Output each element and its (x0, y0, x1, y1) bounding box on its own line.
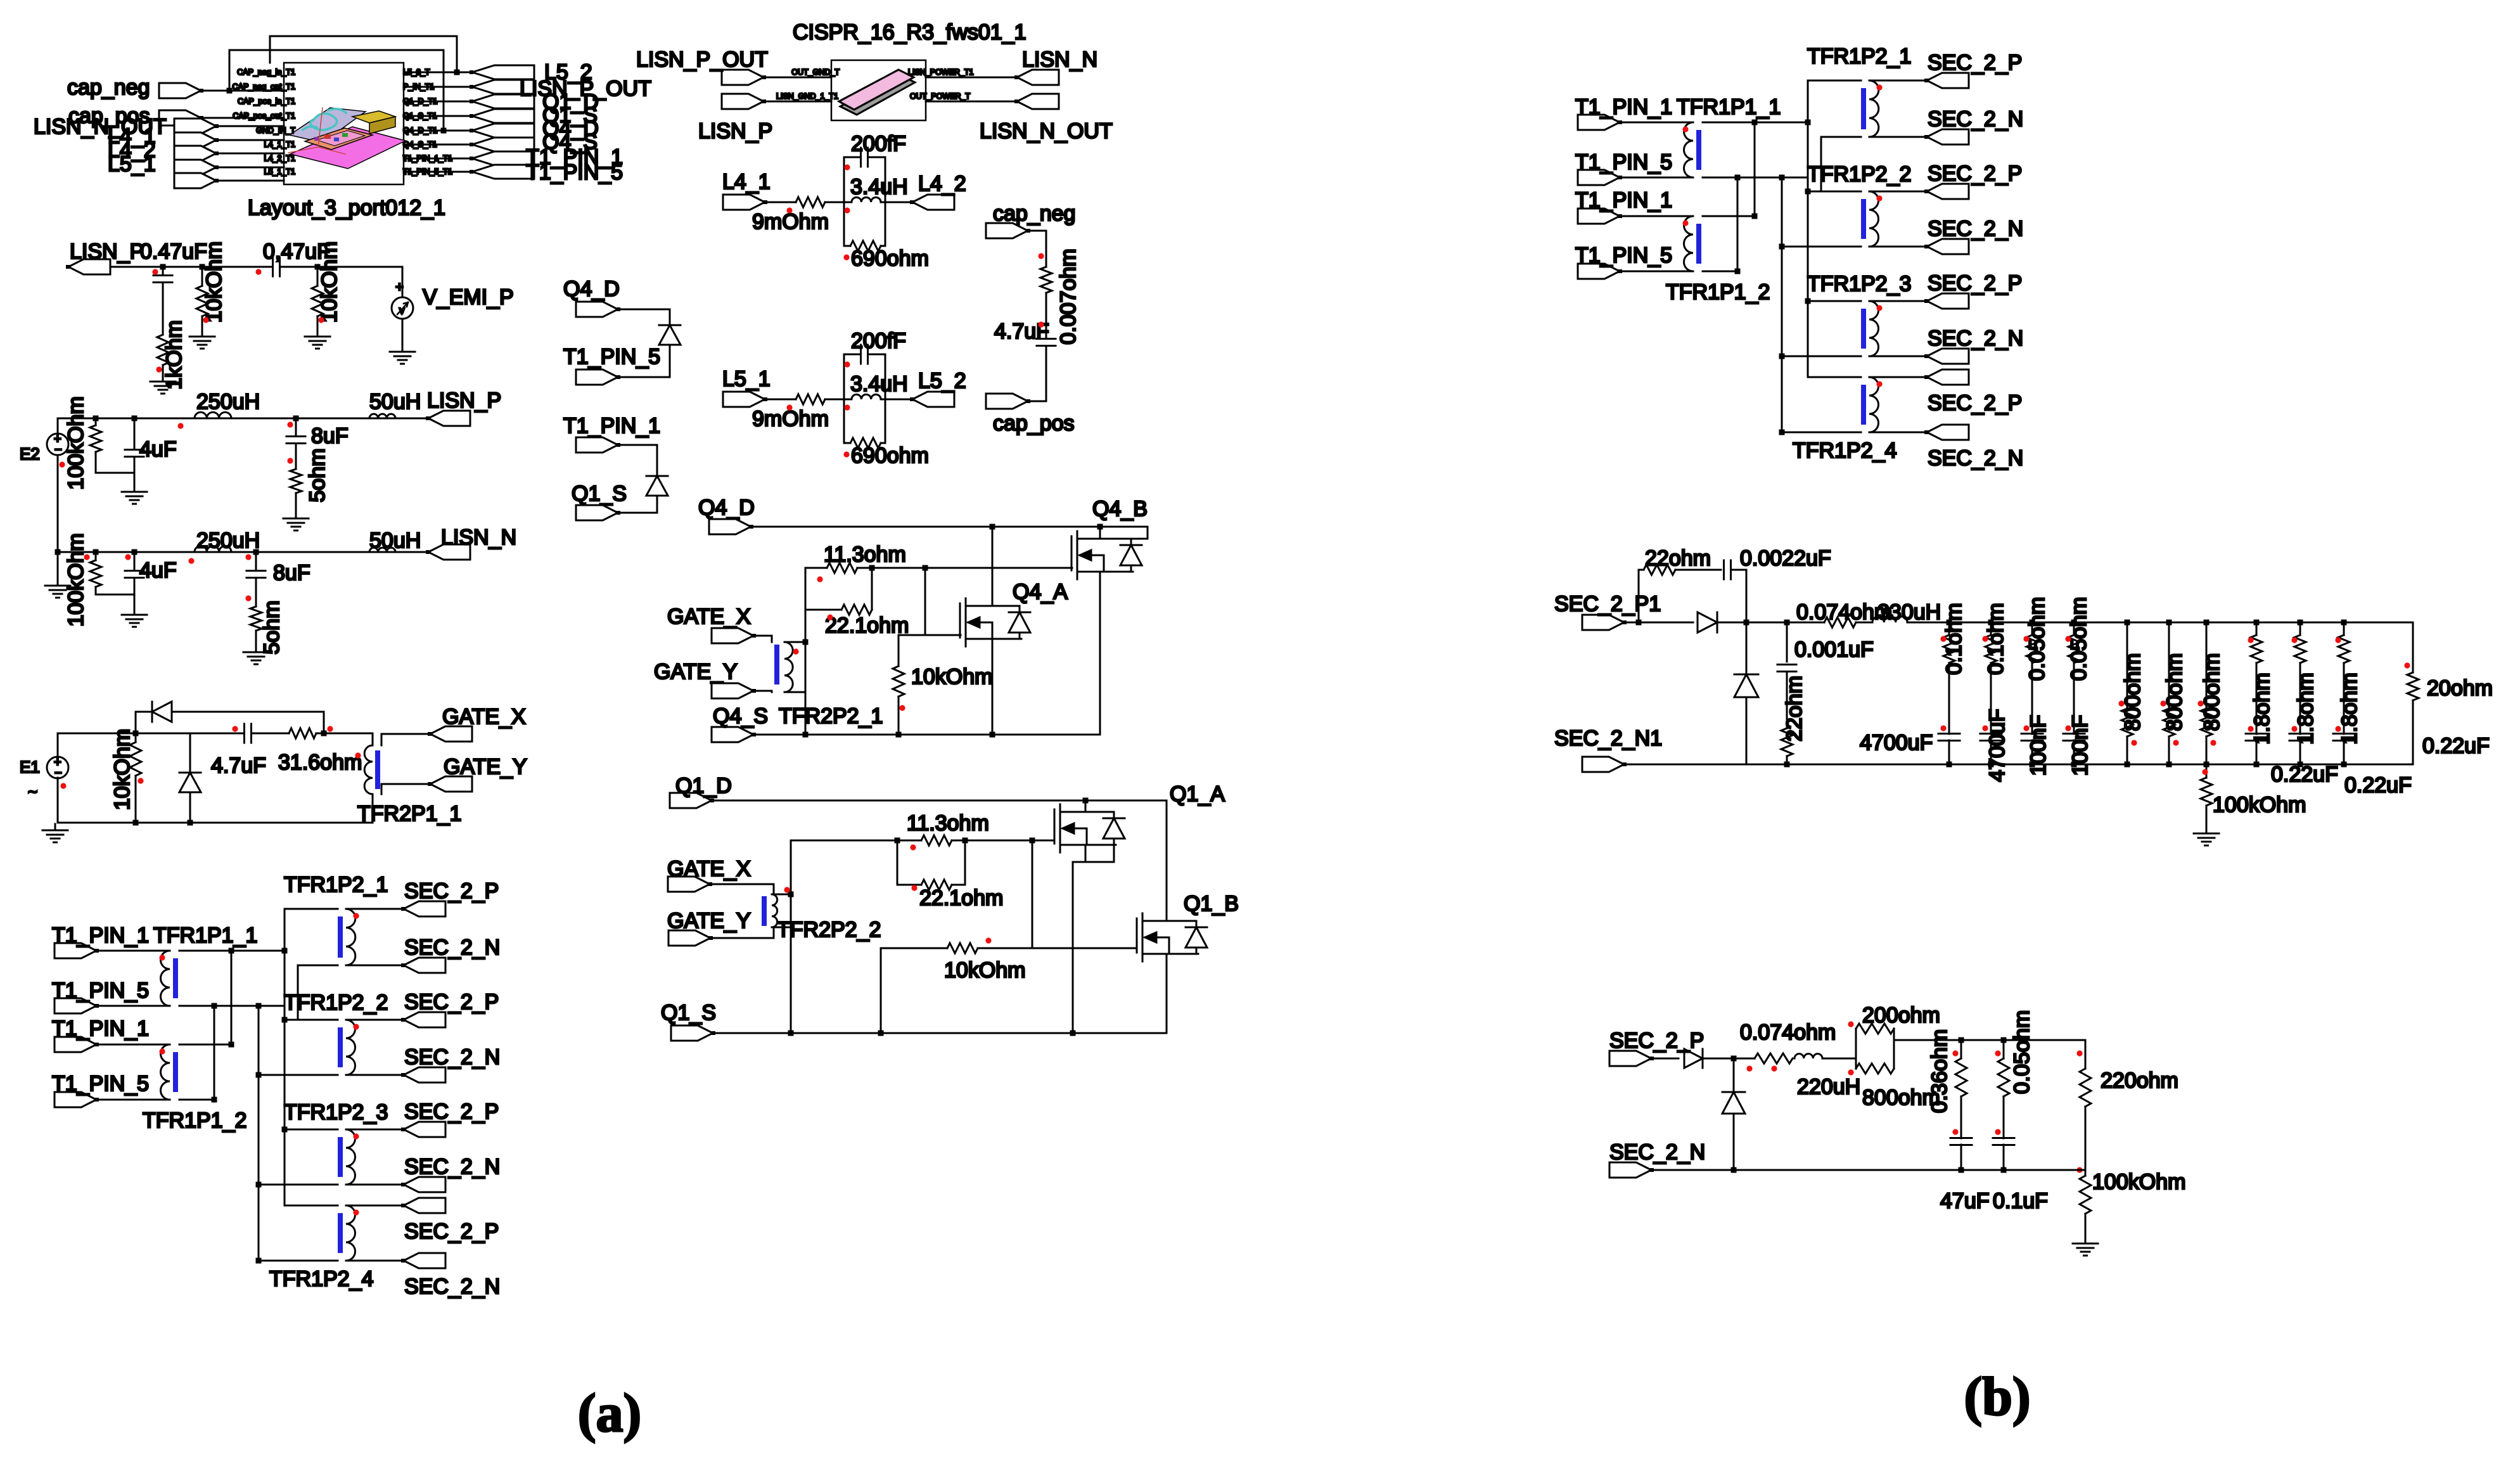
junction (1779, 299, 1811, 359)
wire (825, 399, 844, 401)
wire (1990, 740, 1992, 764)
svg-text:TFR1P1_1: TFR1P1_1 (153, 923, 257, 948)
svg-text:TFR1P2_4: TFR1P2_4 (1793, 439, 1896, 463)
svg-text:GATE_Y: GATE_Y (444, 755, 527, 779)
svg-text:TFR1P2_3: TFR1P2_3 (284, 1100, 388, 1124)
svg-text:220uH: 220uH (1797, 1075, 1860, 1099)
wire (1028, 346, 1046, 401)
svg-text:LISN_N_OUT: LISN_N_OUT (980, 119, 1113, 143)
wire (216, 125, 284, 127)
node dots (2023, 636, 2029, 731)
ground (122, 608, 147, 627)
svg-text:0.001uF: 0.001uF (1794, 638, 1874, 662)
svg-text:SEC_2_P: SEC_2_P (404, 879, 499, 903)
pin L5_2_T (403, 68, 430, 77)
junction (2341, 620, 2347, 768)
wire (843, 354, 845, 443)
wire bus (1737, 177, 1739, 271)
diode (1698, 612, 1717, 633)
junction (1731, 1056, 1737, 1062)
label V_EMI_P (423, 285, 514, 309)
resistor 0.36ohm (1928, 1029, 1967, 1113)
svg-text:OUT_POWER_T: OUT_POWER_T (910, 92, 971, 101)
ground (243, 646, 269, 664)
wire (844, 354, 885, 356)
svg-text:L5_1: L5_1 (722, 367, 771, 391)
label SEC_2_N (1928, 107, 2023, 131)
wire (844, 442, 885, 444)
junction (990, 524, 1103, 530)
svg-text:Q1_A: Q1_A (1170, 782, 1225, 806)
node dots (786, 164, 850, 260)
transformer TFR1P2_4 winding (346, 1205, 355, 1261)
svg-text:T1_PIN_5: T1_PIN_5 (526, 160, 623, 184)
wire (899, 634, 961, 636)
port L5_2 (910, 369, 966, 407)
svg-text:LISN_POWER_T1: LISN_POWER_T1 (908, 68, 974, 77)
wire (179, 1099, 214, 1101)
svg-text:T1_PIN_1: T1_PIN_1 (52, 923, 149, 948)
resistor 100kOhm (2080, 1170, 2185, 1214)
svg-text:LISN_N: LISN_N (1022, 48, 1097, 72)
svg-text:T1_PIN_5: T1_PIN_5 (52, 1072, 149, 1096)
wire (1782, 246, 1861, 248)
svg-text:100kOhm: 100kOhm (64, 396, 88, 489)
wire (136, 712, 324, 733)
ground (390, 345, 415, 364)
diode (659, 325, 681, 345)
svg-text:800ohm: 800ohm (2121, 653, 2145, 731)
transformer TFR2P1_1 winding (364, 745, 373, 794)
resistor 0.05ohm (1998, 1010, 2034, 1096)
pin GND_IN_T (256, 126, 295, 135)
port Q1_D (670, 774, 732, 808)
wire (162, 283, 164, 335)
wire (2206, 764, 2208, 778)
wire (2299, 622, 2301, 635)
junction (2071, 620, 2077, 768)
port (right side) (470, 109, 534, 123)
label SEC_2_N (1928, 446, 2023, 470)
label 9mOhm (752, 407, 829, 431)
junction (2125, 620, 2130, 768)
ground (189, 330, 215, 349)
svg-text:9mOhm: 9mOhm (752, 210, 829, 234)
wire (216, 180, 284, 182)
wire (1869, 376, 1927, 378)
port T1_PIN_5 (52, 979, 149, 1013)
svg-text:cap_neg: cap_neg (993, 202, 1075, 226)
junction (2030, 620, 2035, 768)
label E2 (20, 444, 40, 463)
transformer TFR1P2_4 core (338, 1213, 343, 1253)
transformer TFR2P1_1 core (375, 750, 380, 789)
resistor 0.1ohm (1942, 603, 1966, 674)
wire (346, 1074, 404, 1076)
wire (1620, 271, 1693, 273)
svg-text:TFR1P1_2: TFR1P1_2 (1666, 280, 1770, 304)
resistor 10kOhm (893, 665, 993, 697)
wire (2206, 806, 2208, 827)
wire (2003, 1040, 2005, 1058)
label E1 (20, 757, 40, 776)
wire (926, 101, 1017, 103)
label L4_2 (108, 138, 156, 162)
3D PCB image: copper pour (305, 128, 373, 150)
svg-text:SEC_2_N1: SEC_2_N1 (1554, 726, 1662, 750)
wire (2127, 622, 2128, 709)
svg-text:GATE_X: GATE_X (667, 605, 751, 629)
wire (992, 527, 994, 606)
wire bus (1820, 137, 1822, 191)
wire (784, 642, 805, 692)
svg-text:L4_1_T1: L4_1_T1 (264, 140, 295, 149)
ground (2194, 827, 2219, 845)
capacitor 0.22uF (2289, 734, 2412, 798)
wire (96, 552, 134, 595)
wire (1990, 622, 1992, 635)
junction (93, 416, 299, 421)
svg-text:330uH: 330uH (1877, 600, 1941, 624)
label L4_1 (108, 124, 156, 148)
transformer TFR1P2_3 winding (346, 1129, 355, 1185)
svg-text:800ohm: 800ohm (2200, 653, 2224, 731)
wire (201, 90, 284, 92)
wire bus (1781, 177, 1783, 432)
node dots (786, 361, 850, 457)
wire (992, 639, 994, 735)
label 690ohm (851, 247, 929, 271)
svg-text:cap_neg: cap_neg (67, 75, 150, 100)
wire (791, 840, 1054, 842)
wire (1099, 527, 1101, 539)
wire (135, 776, 137, 823)
wire (404, 171, 472, 173)
svg-text:CISPR_16_R3_fws01_1: CISPR_16_R3_fws01_1 (793, 20, 1027, 44)
svg-text:10kOhm: 10kOhm (911, 665, 993, 689)
label Q4_D (542, 117, 599, 141)
svg-text:5ohm: 5ohm (260, 600, 284, 654)
port L4_2 (174, 146, 219, 161)
wire (285, 1205, 338, 1207)
pin T1_PIN_5_T1 (403, 167, 452, 176)
junction (803, 640, 995, 738)
label T1_PIN_5 (526, 160, 623, 184)
wire (404, 115, 472, 117)
label LISN_P (70, 240, 144, 264)
resistor 9mOhm (796, 197, 825, 207)
wire (259, 1260, 338, 1262)
resistor 800ohm (2121, 653, 2145, 736)
wire (1703, 215, 1755, 217)
wire (1808, 376, 1861, 378)
diode (1722, 1092, 1745, 1114)
inductor 330uH (1872, 600, 1941, 624)
label TFR1P2_1 (284, 873, 388, 897)
resistor 0.074ohm (1740, 1020, 1836, 1064)
capacitor 0.22uF (2246, 734, 2338, 787)
junction (1735, 120, 1811, 274)
wire (295, 418, 297, 469)
3D PCB image: colour bits (314, 133, 348, 141)
junction (2298, 620, 2303, 768)
wire (1675, 569, 1721, 571)
wire (1731, 570, 1746, 622)
port SEC_2_P (401, 1122, 445, 1137)
wire (1856, 1029, 1894, 1069)
port SEC_2_N (401, 958, 445, 973)
wire rail bottom (58, 822, 373, 824)
svg-text:GATE_Y: GATE_Y (654, 660, 738, 684)
wire (298, 965, 338, 967)
wire (1990, 663, 1992, 734)
junction (227, 70, 460, 134)
node dot (1876, 381, 1882, 387)
wire (2073, 663, 2075, 734)
wire Q1_D rail (712, 800, 1167, 802)
svg-text:Q4_S: Q4_S (713, 704, 768, 728)
svg-text:31.6ohm: 31.6ohm (278, 750, 362, 774)
wire (805, 567, 1072, 569)
port stub (174, 173, 219, 188)
node dots (1982, 636, 1988, 731)
port SEC_2_P (401, 1198, 445, 1213)
port (right side) (470, 165, 534, 179)
junction (1083, 798, 1089, 804)
wire (2412, 622, 2414, 672)
svg-text:Q1_B: Q1_B (1184, 892, 1239, 916)
node dots (2248, 637, 2253, 731)
wire (765, 202, 796, 203)
wire bus (1754, 122, 1756, 216)
pin CAP_pos_out_T1 (233, 112, 295, 120)
port SEC_2_N (1924, 349, 1969, 364)
CISPR 3D image bar (839, 70, 914, 110)
label TFR1P2_3 (284, 1100, 388, 1124)
transformer TFR1P1_1 winding (161, 951, 170, 1006)
CISPR 3D image shadow (840, 75, 915, 115)
svg-text:0.0022uF: 0.0022uF (1740, 546, 1831, 570)
svg-text:L4_2: L4_2 (918, 172, 966, 196)
wire (844, 245, 885, 247)
ground (45, 579, 70, 598)
svg-text:SEC_2_P1: SEC_2_P1 (1554, 592, 1661, 616)
wire (57, 455, 59, 579)
svg-text:50uH: 50uH (369, 529, 421, 553)
capacitor 100nF (2021, 734, 2043, 741)
port SEC_2_P (1924, 293, 1969, 309)
svg-text:+: + (395, 279, 404, 295)
label L5_1 (108, 152, 156, 176)
label 0.47uF (140, 240, 207, 264)
port Q1_S (572, 482, 627, 520)
resistor 22ohm (1781, 676, 1807, 756)
port GATE_X (667, 857, 751, 892)
wire rail (1717, 622, 1824, 624)
ground (122, 485, 147, 504)
wire (201, 267, 203, 286)
wire (231, 418, 369, 420)
wire (57, 733, 59, 823)
wire (2206, 622, 2208, 709)
resistor 220ohm (2080, 1069, 2178, 1107)
node dot (353, 1024, 359, 1029)
svg-text:~: ~ (28, 782, 37, 801)
transformer TFR1P2_2 winding (346, 1020, 355, 1075)
label SEC_2_N (1928, 217, 2023, 241)
wire (710, 927, 774, 938)
node dot (1876, 305, 1882, 311)
svg-text:100kOhm: 100kOhm (2092, 1170, 2185, 1194)
svg-text:47uF: 47uF (1940, 1189, 1990, 1213)
wire rail (1624, 764, 2413, 766)
svg-text:T1_PIN_1: T1_PIN_1 (52, 1017, 149, 1041)
CISPR block body (831, 60, 926, 120)
resistor 0.1ohm (1984, 603, 2008, 674)
wire (372, 733, 374, 823)
port SEC_2_P (1924, 370, 1969, 385)
wire (1703, 122, 1808, 124)
pin P_IN_T1 (403, 82, 434, 91)
wire (381, 734, 430, 745)
svg-text:TFR1P2_3: TFR1P2_3 (1807, 272, 1911, 296)
wire (765, 399, 796, 401)
port LISN_N_OUT (174, 119, 219, 134)
port SEC_2_P (401, 901, 445, 916)
wire (1869, 191, 1927, 193)
wire (2085, 1040, 2087, 1069)
wire (1085, 800, 1087, 812)
svg-text:LISN_P: LISN_P (427, 389, 501, 413)
wire (216, 153, 284, 155)
wire (843, 157, 845, 246)
svg-text:800ohm: 800ohm (2163, 653, 2187, 731)
Layout_3_port012_1 block body (284, 63, 404, 184)
resistor 10kOhm (196, 241, 226, 323)
wire (134, 552, 136, 608)
label SEC_2_P (1928, 51, 2022, 75)
transformer TFR2P2_1 core (774, 645, 779, 685)
node dots (784, 844, 991, 943)
junction (256, 1127, 288, 1188)
wire (2256, 740, 2258, 764)
port Q4_D (563, 277, 620, 317)
svg-text:200fF: 200fF (851, 329, 906, 353)
inductor 3.4uH (852, 394, 881, 399)
svg-text:SEC_2_N: SEC_2_N (1928, 107, 2023, 131)
svg-text:0.22uF: 0.22uF (2422, 734, 2490, 758)
wire (346, 1260, 404, 1262)
resistor 1.8ohm (2250, 635, 2274, 745)
port SEC_2_P (1924, 73, 1969, 88)
transformer TFR1P2_1 winding (1869, 80, 1879, 137)
wire (1746, 697, 1748, 764)
pin OUT_GND_T (791, 68, 840, 77)
port SEC_2_P (1609, 1029, 1704, 1066)
resistor 10kOhm (110, 729, 141, 811)
wire (897, 840, 921, 885)
svg-text:11.3ohm: 11.3ohm (824, 543, 906, 567)
port T1_PIN_1 (1575, 188, 1672, 224)
label 3.4uH (850, 175, 908, 199)
label SEC_2_N (404, 1275, 500, 1299)
wire (2127, 736, 2128, 764)
port GATE_Y (654, 660, 756, 698)
wire bus (297, 965, 299, 1020)
port SEC_2_P (401, 1012, 445, 1027)
svg-text:TFR1P2_1: TFR1P2_1 (284, 873, 388, 897)
wire (805, 610, 807, 735)
label LISN_P_OUT (520, 77, 651, 101)
port (right side) (470, 65, 534, 79)
node dots (2076, 1050, 2082, 1173)
port T1_PIN_5 (563, 345, 660, 385)
junction (2254, 620, 2260, 768)
pin CAP_pos_in_T1 (238, 97, 295, 106)
wire (346, 1019, 404, 1021)
port T1_PIN_1 (1575, 95, 1672, 130)
wire Q1_S rail (713, 1032, 1167, 1034)
svg-text:220ohm: 220ohm (2101, 1069, 2178, 1093)
port SEC_2_N (401, 1253, 445, 1268)
svg-text:Q4_D: Q4_D (698, 496, 755, 520)
wire (764, 101, 831, 103)
capacitor 0,47uF (263, 240, 330, 276)
wire (96, 418, 134, 473)
port (right side) (470, 94, 534, 108)
svg-text:SEC_2_P: SEC_2_P (1928, 51, 2022, 75)
svg-text:50uH: 50uH (369, 390, 421, 414)
svg-text:0.47uF: 0.47uF (140, 240, 207, 264)
label T1_PIN_1 (526, 145, 623, 169)
svg-text:TFR1P2_2: TFR1P2_2 (284, 991, 388, 1015)
svg-text:OUT_GND_T: OUT_GND_T (791, 68, 840, 77)
resistor 690ohm (850, 241, 881, 251)
label SEC_2_P (1928, 162, 2022, 186)
node dots (2118, 700, 2137, 745)
svg-text:V_EMI_P: V_EMI_P (423, 285, 514, 309)
transformer TFR1P1_1 core (173, 958, 178, 998)
port GATE_X (667, 605, 756, 643)
wire (346, 1205, 404, 1207)
3D PCB image: substrate plane (290, 127, 406, 169)
resistor 0.05ohm (2067, 597, 2091, 681)
capacitor 4uF (125, 558, 177, 582)
wire (189, 733, 191, 773)
capacitor 4700uF (1938, 734, 1960, 741)
port T1_PIN_1 (563, 414, 660, 453)
wire (216, 167, 284, 169)
wire (2031, 622, 2033, 635)
svg-text:SEC_2_N: SEC_2_N (404, 1045, 500, 1069)
junction (788, 892, 1076, 1036)
transistor Q4_A (960, 580, 1068, 646)
svg-text:LISN_N: LISN_N (441, 525, 516, 550)
svg-text:LISN_P_OUT: LISN_P_OUT (636, 48, 768, 72)
svg-text:SEC_2_N: SEC_2_N (1928, 326, 2023, 350)
wire (255, 552, 257, 607)
svg-text:SEC_2_N: SEC_2_N (404, 935, 500, 960)
wire (2299, 663, 2301, 734)
wire (96, 1099, 170, 1101)
wire loop1 (270, 36, 457, 72)
wire (2003, 1096, 2005, 1138)
wire (1651, 1058, 1679, 1060)
wire (404, 144, 472, 146)
label SEC_2_P (1928, 271, 2022, 295)
svg-text:100kOhm: 100kOhm (2213, 793, 2306, 817)
wire (1822, 1058, 1856, 1060)
